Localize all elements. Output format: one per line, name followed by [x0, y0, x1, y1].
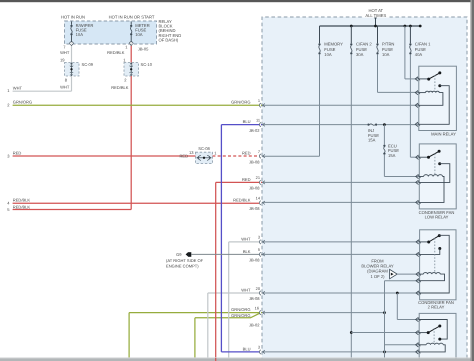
pin MAIN RELAY 3 [415, 103, 418, 107]
svg-text:JB-08: JB-08 [249, 296, 260, 301]
svg-text:RED: RED [13, 151, 22, 156]
top window bar [0, 0, 474, 2]
svg-text:19: 19 [60, 58, 65, 63]
fuse R/WIPER 10A [70, 25, 72, 27]
wire GRN/ORG pin1 to MAIN RELAY pin3 [262, 104, 419, 106]
wire bus to MAIN RELAY pin1 [404, 26, 406, 79]
svg-text:G9: G9 [176, 252, 182, 257]
wire bus to C/FAN 2 fuse [350, 26, 352, 43]
svg-text:RED/BLK: RED/BLK [13, 204, 31, 209]
coil CONDENSER FAN LOW RELAY [419, 176, 423, 178]
wire GRN/ORG second to pin 16 [195, 313, 261, 318]
wire 2 GRN/ORG [13, 104, 262, 106]
wire RED dashed SC-08 to box [212, 155, 259, 157]
svg-text:WHT: WHT [13, 86, 23, 91]
svg-text:RED: RED [179, 154, 188, 159]
pin relay2 1 [416, 155, 419, 159]
svg-text:10A: 10A [382, 52, 390, 57]
svg-text:(AT RIGHT SIDE OF: (AT RIGHT SIDE OF [166, 258, 204, 263]
pin relay3 3 [416, 272, 419, 276]
junction bus C/FAN1 [409, 25, 412, 28]
junction BLU / ground chain [383, 351, 386, 354]
svg-text:ALL TIMES: ALL TIMES [365, 13, 386, 18]
wire WHT SC-09 to wire 1 [71, 76, 73, 91]
pin MAIN RELAY 1 [415, 77, 418, 81]
wire fuse R/WIPER top feed [71, 22, 73, 25]
wire BLU pin11 to INJ fuse [262, 124, 367, 126]
wire GRN/ORG down to bottom [128, 313, 130, 358]
wire WHT pin20 down to bottom [207, 293, 209, 358]
wire 3 RED [13, 155, 196, 157]
svg-text:WHT: WHT [241, 236, 251, 241]
svg-text:OF DASH): OF DASH) [159, 38, 179, 43]
wire relay2 contact to pin3 [419, 164, 450, 183]
svg-text:BLU: BLU [243, 119, 251, 124]
pin relay3 4 [416, 279, 419, 283]
fuse C/FAN 1 40A [409, 43, 411, 45]
wire MEMORY fuse down to RED pin7 line [319, 55, 321, 157]
relay CONDENSER FAN 2 RELAY box [420, 230, 456, 300]
junction SC-09 center [70, 68, 72, 70]
relay 4 switch [419, 332, 428, 334]
wire relay3 coil to pin4 [420, 274, 445, 281]
relay 4 (bottom, unlabeled) box [419, 313, 456, 361]
junction C/FAN2 / relay4 pin2 [350, 331, 353, 334]
relay CONDENSER FAN LOW RELAY switch [419, 156, 428, 158]
coil relay 4 [419, 344, 426, 346]
svg-text:RED: RED [242, 177, 251, 182]
wire chain to relay4 coil pin3 [385, 344, 420, 346]
svg-text:10A: 10A [76, 32, 84, 37]
wire C/FAN1 fuse down to relay2 [409, 55, 411, 158]
junction bus main relay [404, 25, 407, 28]
bus hot feed [320, 25, 421, 27]
pin relay4 3 [416, 343, 419, 347]
wire bus to MEMORY fuse [319, 26, 321, 43]
svg-text:BLU: BLU [243, 346, 251, 351]
wire RED pin7 to MEMORY fuse column [262, 155, 320, 157]
link relay4 armature [433, 328, 435, 343]
wire GRN/ORG pin16 into box [262, 312, 385, 314]
wire BLU junction down to ECU fuse [383, 125, 385, 145]
label HOT AT ALL TIMES [363, 8, 390, 18]
relay MAIN RELAY box [419, 66, 457, 130]
svg-text:3: 3 [258, 235, 260, 240]
wire WHT to pin 3 [229, 241, 262, 243]
svg-text:HOT IN RUN OR START: HOT IN RUN OR START [109, 15, 155, 20]
junction SC-08 center [203, 157, 205, 159]
relay CONDENSER FAN LOW RELAY box [419, 144, 456, 209]
wire RED/BLK pin14 to CONDENSER FAN LOW RELAY pin4 [262, 201, 419, 203]
svg-text:RED/BLK: RED/BLK [111, 85, 129, 90]
pin relay2 3 [416, 180, 419, 184]
fuse METER 10A [130, 25, 132, 27]
wire RED/BLK fuse to SC-10 [130, 46, 132, 63]
connector SC-09 box [65, 63, 80, 77]
pin relay3 5 [416, 291, 419, 295]
wire relay3 contact to pin2 [420, 249, 440, 255]
wire relay4 coil to pin4 [419, 345, 445, 352]
wire C/FAN2 fuse column down [350, 55, 352, 361]
pin relay2 4 [416, 200, 419, 204]
svg-text:1 OF 2): 1 OF 2) [370, 274, 385, 279]
svg-text:MAIN RELAY: MAIN RELAY [431, 131, 456, 136]
connector SC-08 internal [199, 155, 202, 160]
svg-text:1: 1 [258, 98, 260, 103]
svg-text:SC-09: SC-09 [82, 62, 94, 67]
wire 5 RED/BLK [13, 209, 132, 211]
junction bus end [419, 25, 422, 28]
wire fuse METER to block edge [130, 35, 132, 43]
pin relay4 2 [416, 330, 419, 334]
bottom gray band (window edge) [0, 356, 474, 359]
node pin 5 BLK [259, 252, 261, 256]
pin relay2 2 [416, 174, 419, 178]
svg-text:GRN/ORG: GRN/ORG [231, 313, 250, 318]
node pin 20 WHT [259, 291, 261, 295]
svg-text:RED/BLK: RED/BLK [13, 198, 31, 203]
svg-text:JB-05: JB-05 [138, 47, 149, 52]
svg-text:15A: 15A [368, 138, 376, 143]
wire BLK G9 to pin 5 [192, 253, 263, 255]
junction WHT20 / relay4 feed [396, 292, 399, 295]
svg-text:2 RELAY: 2 RELAY [428, 305, 445, 310]
fuse INJ 15A [367, 123, 369, 125]
node CONDENSER FAN LOW RELAY fixed contact [438, 162, 441, 165]
wire relay3 moving contact to pin5 [420, 235, 450, 293]
svg-text:7: 7 [258, 149, 260, 154]
wire GRN/ORG to pin 16 [129, 312, 262, 314]
wire RED pin21 down off page [215, 182, 217, 361]
svg-text:JB-08: JB-08 [249, 159, 260, 164]
svg-text:16: 16 [255, 305, 259, 310]
svg-text:JB-02: JB-02 [249, 322, 260, 327]
node relay4 fixed contact [438, 338, 441, 341]
fuse C/FAN 2 30A [350, 43, 352, 45]
svg-text:10A: 10A [135, 32, 143, 37]
connector SC-10 internal [130, 66, 133, 67]
wire WHT pin3 to CONDENSER FAN 2 RELAY pin1 [262, 241, 420, 243]
wire BLU bottom to pin 3 [221, 351, 261, 353]
wire bus to C/FAN 1 fuse [409, 26, 411, 43]
pin relay4 1 [416, 317, 419, 321]
relay block / junction box (dashed region) [262, 17, 467, 361]
coil CONDENSER FAN 2 RELAY [420, 273, 424, 275]
wire 1 WHT [13, 90, 72, 92]
connector hot feed at box top edge [374, 15, 378, 17]
wire HOT AT ALL TIMES feed [375, 17, 377, 27]
wire fuse R/WIPER to block edge [71, 35, 73, 43]
node pin 11 BLU [259, 123, 261, 127]
wire 4 RED/BLK [13, 202, 259, 204]
svg-text:3: 3 [258, 345, 260, 350]
junction SC-10 center [130, 68, 132, 70]
wire WHT to pin 20 [208, 292, 262, 294]
wire WHT fuse to SC-09 [71, 46, 73, 63]
svg-text:JB-08: JB-08 [249, 258, 260, 263]
wire P/TRN fuse down to MAIN RELAY coil [377, 55, 379, 93]
node pin 14 RED/BLK [259, 201, 261, 205]
ground G9 symbol [186, 252, 189, 257]
svg-text:11: 11 [256, 117, 260, 122]
wire C/FAN2 junction to relay4 pin2 [351, 332, 419, 334]
connector at relay block edge (R/WIPER) [70, 42, 74, 44]
connector at relay block edge (METER) [129, 42, 133, 44]
svg-text:JB-02: JB-02 [249, 128, 260, 133]
wire bus to P/TRN fuse [377, 26, 379, 43]
wire relay2 coil to pin4 [419, 177, 444, 203]
link MAIN RELAY armature [434, 75, 436, 91]
svg-text:WHT: WHT [60, 50, 70, 55]
wire WHT pin20 to CONDENSER FAN 2 RELAY pin5 [262, 292, 420, 294]
link relay2 armature [434, 154, 436, 175]
wire RED pin21 to CONDENSER FAN LOW RELAY pin3 [262, 181, 419, 183]
svg-text:RED: RED [242, 151, 251, 156]
relay 4 contact path [419, 320, 447, 340]
svg-text:GRN/ORG: GRN/ORG [231, 307, 250, 312]
right window bar [470, 0, 472, 361]
fuse P/TRN 10A [376, 43, 378, 45]
svg-text:RED/BLK: RED/BLK [233, 197, 251, 202]
wire P/TRN to MAIN RELAY pin2 [378, 91, 419, 93]
svg-text:21: 21 [256, 175, 260, 180]
connector SC-08 box [196, 152, 213, 163]
wire WHT pin3 down to bottom [228, 242, 230, 358]
wire RED to pin 21 [216, 181, 262, 183]
junction bus C/FAN2 [350, 25, 353, 28]
node relay3 fixed contact [438, 247, 441, 250]
wire BLU pin11 down [220, 125, 222, 352]
pin MAIN RELAY 2 [415, 90, 418, 94]
wire BLK pin5 to CONDENSER FAN 2 RELAY pin2 [262, 253, 420, 255]
wire BLU pin3 to relay4 coil pin [262, 351, 419, 353]
svg-text:ENGINE COMPT): ENGINE COMPT) [166, 263, 199, 268]
pin relay3 2 [416, 252, 419, 256]
svg-text:HOT IN RUN: HOT IN RUN [61, 15, 85, 20]
wire INJ fuse to MAIN RELAY pin4 [377, 124, 419, 126]
fuse MEMORY 10A [318, 43, 320, 45]
svg-text:LOW RELAY: LOW RELAY [425, 214, 449, 219]
node pin 3 WHT [259, 240, 261, 244]
pin MAIN RELAY 4 [415, 122, 418, 126]
node pin 16 GRN/ORG [259, 311, 261, 315]
relay MAIN RELAY switch [419, 78, 429, 80]
svg-text:JB-08: JB-08 [249, 186, 260, 191]
svg-text:WHT: WHT [241, 288, 251, 293]
wire WHT20 junction down to relay4 pin1 [396, 293, 398, 320]
wire BLU to pin 11 [221, 124, 262, 126]
junction BLU/ECU [383, 123, 386, 126]
svg-text:GRN/ORG: GRN/ORG [231, 100, 250, 105]
wire fuse METER top feed [130, 22, 132, 25]
node MAIN RELAY fixed contact [438, 84, 441, 87]
wire relay3 pin4 to chain [385, 280, 420, 282]
svg-text:40A: 40A [415, 52, 423, 57]
coil MAIN RELAY [419, 92, 426, 94]
wire MAIN RELAY contact to pin4 [419, 86, 449, 125]
svg-text:15A: 15A [388, 153, 396, 158]
node pin 3 BLU [259, 350, 261, 354]
fuse ECU 15A [383, 145, 385, 147]
arrow FROM BLOWER RELAY [390, 269, 398, 278]
wire ECU to CONDENSER FAN LOW RELAY pin2 [384, 176, 419, 178]
junction bus feed [374, 25, 377, 28]
connector SC-10 box [124, 63, 139, 77]
svg-text:WHT: WHT [60, 84, 70, 89]
junction GRN/ORG / ground chain [383, 311, 386, 314]
svg-text:13: 13 [189, 150, 194, 155]
wire ECU fuse down to relay2 coil [383, 155, 385, 177]
dash relay block box [65, 21, 157, 44]
wire RED continues to bottom edge [215, 358, 217, 361]
wire GRN/ORG second down to bottom [194, 318, 196, 358]
svg-text:BLK: BLK [243, 249, 251, 254]
svg-text:30A: 30A [356, 52, 364, 57]
wire blower arrow to CONDENSER FAN 2 RELAY pin3 [397, 273, 420, 275]
link relay3 armature [434, 238, 436, 272]
svg-text:GRN/ORG: GRN/ORG [13, 100, 32, 105]
svg-text:SC-08: SC-08 [198, 146, 210, 151]
pin relay4 4 [416, 350, 419, 354]
svg-text:JB-08: JB-08 [249, 206, 260, 211]
node pin 7 RED [259, 154, 261, 158]
svg-text:10A: 10A [324, 52, 332, 57]
svg-text:SC-10: SC-10 [141, 62, 153, 67]
wire MAIN RELAY coil to pin3 [419, 93, 443, 106]
node pin 21 RED [259, 180, 261, 184]
svg-text:RED/BLK: RED/BLK [107, 50, 125, 55]
wire RED/BLK SC-10 down to wire 5 [130, 76, 132, 210]
pin relay3 1 [416, 240, 419, 244]
connector SC-09 internal [70, 66, 73, 67]
relay CONDENSER FAN 2 RELAY switch [420, 241, 429, 243]
wire CONDENSER FAN 2 RELAY pin4 ground chain down [384, 281, 386, 358]
svg-text:5: 5 [258, 247, 260, 252]
node pin 1 GRN/ORG [259, 103, 261, 107]
wire C/FAN1 to CONDENSER FAN LOW RELAY pin1 [410, 156, 419, 158]
